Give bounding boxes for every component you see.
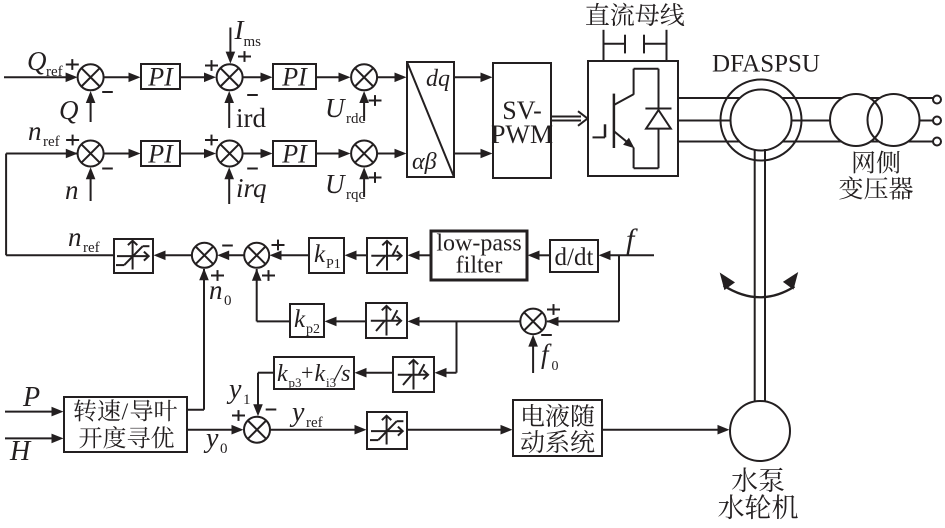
wire PI2 to M1 (316, 73, 351, 83)
label grid-side transformer line1 (wang ce) (854, 151, 900, 174)
label P input (22, 382, 40, 413)
node minus sign below S4 (247, 168, 258, 170)
svg-text:f: f (541, 339, 552, 369)
wire f0 arrow (528, 335, 538, 373)
svg-text:PI: PI (147, 63, 174, 92)
node plus sign right of Ims arrow (238, 51, 251, 62)
svg-text:n: n (28, 116, 42, 146)
svg-text:H: H (9, 436, 32, 467)
pump turbine circle (730, 401, 790, 461)
svg-text:U: U (325, 93, 346, 123)
label servo line2 (dong xitong) (521, 430, 595, 453)
wire Urqc arrow (359, 167, 369, 197)
node plus sign at M1 (369, 95, 382, 106)
summing junction S8 (servo input) (244, 417, 270, 443)
svg-text:U: U (325, 169, 346, 199)
node minus sign at S3 (102, 168, 113, 170)
block speed/guide-vane optimization (64, 397, 187, 452)
label n0 (209, 275, 232, 309)
wire S8 to limiter2 (270, 425, 366, 435)
rotation direction arc (720, 272, 799, 297)
label optimizer line2 (kaidu xunyou) (79, 426, 173, 448)
label pump line1 (shui beng) (732, 467, 784, 492)
block kp2 gain (290, 304, 324, 337)
wire Urdc arrow (359, 91, 369, 121)
svg-text:DFASPSU: DFASPSU (712, 51, 820, 78)
wire ird feedback arrow (224, 91, 234, 128)
svg-text:P: P (22, 382, 40, 413)
wire n feedback arrow (86, 167, 96, 201)
svg-text:p2: p2 (306, 322, 320, 337)
label n feedback (65, 175, 79, 205)
transformer winding 1 (830, 94, 882, 146)
summing junction S3 (speed error) (78, 141, 104, 167)
wire M2 to dq box (377, 149, 406, 159)
wire Qref input (4, 73, 78, 83)
label y1 (226, 374, 251, 408)
wire servo to pump turbine (602, 425, 730, 435)
label Q feedback (59, 95, 79, 125)
block PI controller 3 (141, 140, 180, 169)
block rotor-side converter (588, 61, 678, 176)
wire ddt to filter (528, 251, 550, 261)
svg-text:k: k (277, 361, 288, 387)
wire S6 to S5 (217, 251, 244, 261)
svg-text:irq: irq (236, 173, 267, 203)
summing junction S2 (current loop d) (217, 64, 243, 90)
wire filter to deadzone1 (408, 251, 431, 261)
machine DFASPSU outer circle (721, 80, 802, 161)
wire stator phase line C (678, 141, 933, 143)
wire M1 to dq box (377, 73, 406, 83)
wire stator phase line B (678, 120, 933, 122)
wire deadzone1 to kP1 (345, 251, 367, 261)
svg-text:n: n (68, 222, 82, 252)
block PI controller 2 (273, 63, 316, 92)
label grid-side transformer line2 (bianyaqi) (839, 176, 913, 199)
label DC bus (zhiliu muxian) (586, 3, 684, 26)
block electro-hydraulic servo system (513, 400, 602, 456)
svg-text:PI: PI (147, 140, 174, 169)
wire PI3 to S4 (180, 149, 216, 159)
svg-text:ref: ref (46, 64, 63, 80)
label Urdc (325, 93, 365, 127)
block SV-PWM (491, 63, 553, 178)
node plus sign at S8 (232, 410, 245, 421)
wire dq to SVPWM upper (454, 73, 493, 83)
svg-text:0: 0 (220, 441, 228, 457)
node minus sign at S1 (102, 91, 113, 93)
wire DC bus right lead (644, 30, 667, 61)
svg-text:y: y (226, 374, 242, 405)
summing junction M2 (Urqc compensation) (351, 141, 377, 167)
svg-text:rqc: rqc (346, 187, 365, 203)
svg-text:p3: p3 (289, 375, 302, 390)
svg-text:d/dt: d/dt (555, 244, 594, 271)
terminal C (933, 138, 941, 146)
svg-text:0: 0 (552, 359, 559, 374)
svg-text:1: 1 (243, 392, 251, 408)
wire DC bus left lead (604, 30, 626, 61)
wire limiter1 output to row2 (6, 254, 114, 256)
wire S5 to limiter1 (154, 251, 193, 261)
summing junction S6 (244, 243, 269, 268)
capacitor plate left (624, 35, 626, 54)
machine DFASPSU inner circle (731, 90, 792, 151)
wire irq feedback arrow (224, 167, 234, 204)
wire S7 to deadzone2 (408, 317, 521, 327)
label f (626, 223, 638, 256)
transformer winding 2 (868, 94, 920, 146)
svg-text:ref: ref (83, 240, 100, 256)
block low-pass filter (431, 231, 527, 281)
wire f branch to S7 (547, 317, 620, 327)
node plus sign at M2 (369, 172, 382, 183)
transistor IGBT body (614, 94, 635, 149)
svg-text:n: n (65, 175, 79, 205)
svg-text:/s: /s (333, 361, 351, 387)
node plus sign below S6 (262, 270, 275, 281)
label y0 (203, 423, 228, 457)
wire y0 output to S8 (187, 425, 244, 435)
block dead zone 2 (366, 303, 407, 338)
node plus sign at S4 (205, 135, 218, 146)
label nref row3 (68, 222, 100, 256)
svg-text:P1: P1 (326, 257, 341, 272)
label DFASPSU (712, 51, 820, 78)
wire branch down to deadzone3 (435, 321, 457, 377)
wire f to ddt (599, 251, 655, 261)
wire SVPWM gate signal double arrow (551, 111, 588, 126)
wire shaft right line (764, 149, 766, 403)
svg-text:0: 0 (224, 293, 232, 309)
wire S2 to PI2 (243, 73, 273, 83)
capacitor plate right (643, 35, 645, 54)
transistor IGBT gate (593, 124, 606, 137)
label Qref (27, 46, 63, 80)
node minus sign at S8 (266, 409, 277, 411)
wire PI4 to M2 (316, 149, 351, 159)
wire deadzone2 to kp2 (325, 317, 366, 327)
label Ims (234, 15, 262, 50)
summing junction S1 (Q error) (78, 64, 104, 90)
wire dq to SVPWM lower (454, 149, 493, 159)
wire kp2 to S6 (252, 269, 290, 322)
node plus sign below S5 (211, 270, 224, 281)
block PI controller 1 (141, 63, 180, 92)
wire Ims input arrow (226, 28, 236, 64)
svg-text:ref: ref (43, 134, 60, 150)
svg-text:Q: Q (59, 95, 79, 125)
label irq (236, 173, 267, 203)
label pump line2 (shui lun ji) (718, 494, 797, 519)
block rate limiter 2 (367, 412, 407, 449)
block dq-alphabeta transform (407, 62, 454, 177)
wire limiter2 to servo (407, 425, 513, 435)
wire S3 to PI3 (104, 149, 141, 159)
block kp3+ki3/s PI governor (274, 357, 354, 390)
node minus sign at S5 (222, 245, 233, 247)
wire nref feedback path (left vertical) (6, 149, 78, 256)
node minus sign below S7 (541, 334, 552, 336)
wire IGBT-diode loop (634, 69, 659, 169)
svg-text:y: y (289, 397, 305, 428)
block PI controller 4 (273, 140, 316, 169)
summing junction S4 (current loop q) (217, 141, 243, 167)
wire stator phase line A (678, 97, 933, 99)
svg-text:k: k (294, 306, 306, 333)
svg-text:n: n (209, 275, 223, 305)
label H input (9, 436, 32, 467)
svg-text:PI: PI (281, 63, 308, 92)
svg-text:k: k (314, 241, 326, 268)
svg-text:rdc: rdc (346, 111, 365, 127)
svg-text:dq: dq (426, 66, 450, 92)
label servo line1 (dianye sui) (523, 404, 594, 427)
label optimizer line1 (zhuansu/daoye) (74, 399, 177, 425)
svg-text:filter: filter (456, 253, 503, 279)
svg-text:ms: ms (244, 34, 262, 50)
wire n0 output up to S5 (187, 268, 209, 409)
wire S1 to PI1 (104, 73, 141, 83)
svg-text:PI: PI (281, 140, 308, 169)
wire kp3 to S8 (253, 373, 274, 417)
block kP1 gain (309, 238, 344, 273)
block rate limiter 1 (114, 239, 153, 273)
block dead zone 1 (367, 238, 407, 273)
transformer winding fills (830, 94, 920, 146)
svg-text:αβ: αβ (412, 149, 437, 175)
svg-text:Q: Q (27, 46, 47, 76)
svg-text:PWM: PWM (491, 120, 553, 149)
label nref row2 (28, 116, 60, 150)
wire S4 to PI4 (243, 149, 273, 159)
label ird (236, 103, 266, 133)
label yref (289, 397, 323, 431)
summing junction S5 (192, 243, 217, 268)
node plus sign left of S2 (205, 60, 218, 71)
wire f branch vertical (618, 255, 620, 321)
svg-text:ref: ref (306, 415, 323, 431)
node minus sign below S2 (247, 94, 258, 96)
svg-text:y: y (203, 423, 219, 454)
node plus sign at S3 (66, 135, 79, 146)
block dead zone 3 (393, 357, 434, 392)
node plus sign right of S6 (272, 240, 285, 251)
label f0 (541, 339, 559, 374)
svg-text:ird: ird (236, 103, 266, 133)
terminal B (933, 117, 941, 125)
label Urqc (325, 169, 365, 203)
diode D1 (645, 109, 671, 129)
wire P input arrow (5, 407, 64, 417)
node plus sign at summing junction S1 (66, 59, 79, 70)
svg-text:+: + (301, 360, 313, 385)
block d/dt (550, 240, 598, 272)
wire Q feedback arrow (86, 91, 96, 122)
svg-text:f: f (626, 223, 638, 256)
terminal A (933, 96, 941, 104)
wire H input arrow (5, 434, 64, 444)
wire shaft left line (754, 149, 756, 403)
node plus sign at S7 (547, 304, 560, 315)
svg-text:/: / (122, 400, 129, 426)
summing junction S7 (frequency error) (520, 309, 546, 335)
wire deadzone3 to kp3 (355, 368, 393, 378)
wire PI1 to S2 (180, 73, 216, 83)
wire kP1 to S6 (270, 251, 309, 261)
svg-text:k: k (315, 361, 326, 387)
summing junction M1 (Urdc compensation) (351, 64, 377, 90)
